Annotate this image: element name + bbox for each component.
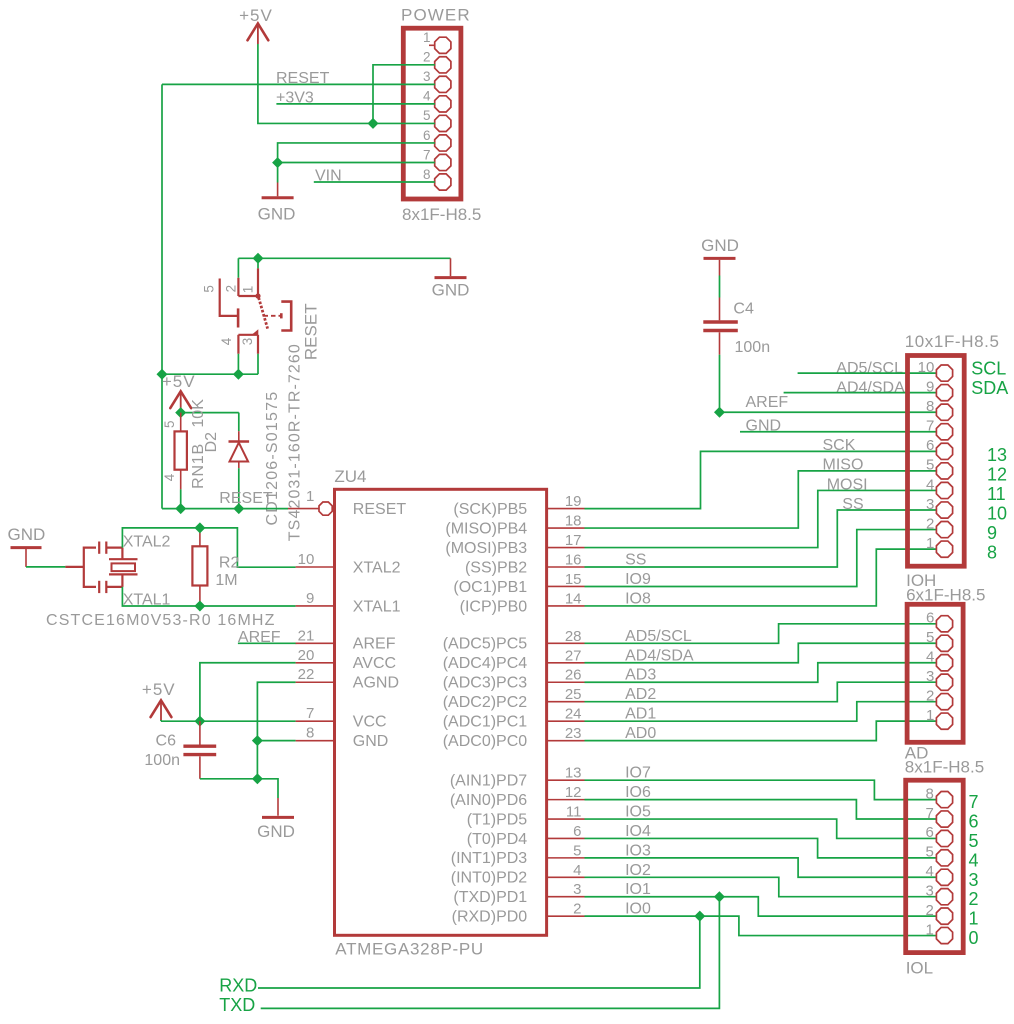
wire MISO ZU4 to IOH pin 5 [585,471,937,528]
wire GND to POWER pin7 [278,161,435,163]
svg-text:3: 3 [926,496,934,513]
net label 6 (IOL) [969,812,979,832]
ZU4 right pin 19 (SCK)PB5 [453,493,584,518]
net label AD5/SCL (IOH) [836,360,903,377]
C6 name [156,732,177,749]
junction C4/AREF [715,407,725,417]
net label 9 (IOH) [987,523,997,543]
svg-text:7: 7 [926,418,934,435]
svg-text:8: 8 [987,543,997,563]
junction switch pin4 [234,369,244,379]
ground symbol GND (C4) [701,236,739,276]
junction RN1B/RESET [176,504,186,514]
net label IO0 [625,901,651,918]
net label GND (IOH) [746,417,782,434]
net label +3V3 [276,89,314,106]
svg-text:R2: R2 [219,555,240,572]
net label IO9 [625,571,651,588]
svg-text:3: 3 [969,870,979,890]
POWER pin 1 stub [429,44,435,46]
POWER pin 8 pad [423,167,451,190]
svg-text:26: 26 [565,667,582,684]
junction XTAL1/R2 [195,601,205,611]
net label SS (IOH) [842,496,863,513]
svg-text:4: 4 [162,473,177,481]
svg-text:GND: GND [353,733,389,750]
POWER pin 2 pad [423,50,451,73]
svg-text:20: 20 [298,647,315,664]
connector IOH 10x1F-H8.5 [908,356,965,567]
svg-text:9: 9 [987,523,997,543]
junction +5V/RN1B [176,408,186,418]
svg-text:1: 1 [423,30,431,45]
wire IO6 ZU4 to IOL pin 7 [585,800,937,819]
svg-text:CSTCE16M0V53-R0 16MHZ: CSTCE16M0V53-R0 16MHZ [46,612,276,629]
svg-text:3: 3 [423,69,431,84]
svg-text:AD1: AD1 [625,706,656,723]
ground symbol GND (switch) [432,258,470,299]
svg-text:4: 4 [926,476,934,493]
net label VIN [315,168,342,185]
ground symbol GND (POWER) [258,163,296,224]
svg-text:RESET: RESET [219,490,273,507]
svg-text:23: 23 [565,725,582,742]
ZU4 right pin 16 (SS)PB2 [465,552,585,577]
IOL pin 8 pad [925,785,952,807]
IOH pin 7 pad [926,418,953,440]
power symbol +5V (VCC) [142,680,176,721]
svg-text:5: 5 [926,457,934,474]
svg-text:IO4: IO4 [625,823,651,840]
svg-text:(MOSI)PB3: (MOSI)PB3 [445,540,527,557]
wire AD5/SCL ZU4 pin28 to AD pin 6 [585,624,937,644]
wire D2 to RESET [238,468,240,508]
ZU4 right pin 23 (ADC0)PC0 [443,725,585,750]
svg-text:21: 21 [298,627,315,644]
ZU4 pin1 inverter bubble [319,502,332,515]
wire AD0 ZU4 pin23 to AD pin 1 [585,721,937,741]
wire VCC row [161,720,296,721]
diode D2 [229,413,250,469]
svg-text:(OC1)PB1: (OC1)PB1 [453,579,527,596]
wire IO5 ZU4 to IOL pin 6 [585,819,937,838]
AD pin 6 pad [926,610,953,632]
svg-text:8: 8 [423,167,431,182]
ground symbol GND (XTAL) [8,525,46,567]
POWER pin 7 pad [423,147,451,170]
POWER pin 3 pad [423,69,451,92]
svg-text:SS: SS [625,552,646,569]
svg-text:5: 5 [162,420,177,428]
svg-text:(ADC4)PC4: (ADC4)PC4 [443,655,528,672]
svg-text:IO5: IO5 [625,804,651,821]
svg-text:(T0)PD4: (T0)PD4 [467,831,528,848]
svg-text:3: 3 [925,883,933,900]
svg-text:2: 2 [573,901,581,918]
svg-text:6: 6 [925,824,933,841]
svg-text:IO9: IO9 [625,571,651,588]
svg-text:6: 6 [969,812,979,832]
svg-text:AD5/SCL: AD5/SCL [836,360,903,377]
svg-text:14: 14 [565,590,582,607]
wire AD4 ZU4 pin27 to AD pin 5 [585,643,937,663]
svg-text:2: 2 [224,285,239,293]
svg-text:13: 13 [987,445,1007,465]
net label IO1 [625,881,651,898]
svg-text:4: 4 [219,337,234,345]
svg-text:XTAL2: XTAL2 [353,559,401,576]
wire AD5/SCL stub to IOH pin10 [798,372,937,374]
IOH pin 6 pad [926,437,953,459]
net label IO8 [625,590,651,607]
net label AD4/SDA [625,647,694,664]
IC ZU4 ATMEGA328P-PU body [335,489,547,935]
svg-text:SCK: SCK [823,437,856,454]
net label MISO (IOH) [823,457,864,474]
svg-text:100n: 100n [144,752,180,769]
switch name RESET (rotated) [302,303,321,360]
switch pin numbers 5 2 1 4 3 [202,285,256,345]
svg-text:12: 12 [565,784,582,801]
svg-text:AD4/SDA: AD4/SDA [836,379,905,396]
net label RESET [276,70,330,87]
svg-text:IO3: IO3 [625,842,651,859]
svg-text:(AIN1)PD7: (AIN1)PD7 [450,773,527,790]
R2 name [219,555,240,572]
wire IO2 ZU4 to IOL pin 3 [585,877,937,896]
svg-text:8: 8 [925,785,933,802]
svg-text:(AIN0)PD6: (AIN0)PD6 [450,792,527,809]
net label AD3 [625,667,656,684]
svg-text:1: 1 [306,488,314,505]
resonator value CSTCE16M0V53-R0 16MHZ [46,612,276,629]
svg-text:TS42031-160R-TR-7260: TS42031-160R-TR-7260 [286,343,303,541]
svg-text:+5V: +5V [142,680,176,699]
svg-text:8: 8 [306,725,314,742]
ZU4 left pin 9 XTAL1 [296,590,401,615]
svg-text:C6: C6 [156,732,177,749]
wire GND to resonator [26,566,65,568]
IOH name [906,571,936,590]
svg-text:8x1F-H8.5: 8x1F-H8.5 [905,757,984,776]
svg-text:7: 7 [969,792,979,812]
net label AD0 [625,725,656,742]
svg-text:(RXD)PD0: (RXD)PD0 [452,908,528,925]
svg-text:RESET: RESET [353,501,407,518]
C4 value 100n [735,339,771,356]
R2 value 1M [215,572,237,589]
junction C6/GND [253,774,263,784]
svg-text:6x1F-H8.5: 6x1F-H8.5 [906,585,985,604]
svg-text:(ADC1)PC1: (ADC1)PC1 [443,713,528,730]
ZU4 right pin 4 (INT0)PD2 [451,862,585,887]
net label AD2 [625,686,656,703]
RN1B value 10K (rotated) [190,399,207,428]
ZU4 right pin 18 (MISO)PB4 [445,513,584,538]
svg-text:2: 2 [925,902,933,919]
svg-text:SDA: SDA [971,378,1008,398]
AD pin 1 pad [926,707,953,729]
ZU4 right pin 3 (TXD)PD1 [453,881,584,906]
POWER pin 6 pad [423,128,451,151]
svg-text:6: 6 [423,128,431,143]
resistor RN1B 10K [175,413,187,490]
ZU4 left pin 8 GND [296,725,389,750]
wire AGND riser [257,682,295,740]
svg-text:17: 17 [565,532,582,549]
wire RESET to POWER pin3 [162,83,435,85]
net label 12 (IOH) [987,464,1007,484]
C4 name [733,300,754,317]
IOL pin 6 pad [925,824,952,846]
wire C4 to AREF [720,355,937,413]
junction TXD/IO1 [715,892,725,902]
svg-text:IO6: IO6 [625,784,651,801]
ZU4 right pin 27 (ADC4)PC4 [443,647,585,672]
POWER pin 4 pad [423,89,451,112]
net label MOSI (IOH) [827,476,868,493]
junction RXD/IO0 [695,911,705,921]
connector IOL 8x1F-H8.5 [906,780,964,952]
svg-text:(ADC0)PC0: (ADC0)PC0 [443,733,528,750]
wire AD3 ZU4 pin26 to AD pin 4 [585,663,937,683]
svg-text:10: 10 [298,551,315,568]
svg-text:(INT1)PD3: (INT1)PD3 [451,850,528,867]
IOL name [906,959,933,978]
svg-text:100n: 100n [735,339,771,356]
ZU4 left pin 10 XTAL2 [296,551,401,576]
svg-text:2: 2 [969,889,979,909]
net label IO3 [625,842,651,859]
wire RESET long vertical [161,84,163,508]
IOH pin 4 pad [926,476,953,498]
svg-text:3: 3 [573,881,581,898]
svg-text:5: 5 [573,842,581,859]
ZU4 right pin 14 (ICP)PB0 [460,590,585,615]
svg-text:4: 4 [573,862,581,879]
net label IO6 [625,784,651,801]
wire IO3 ZU4 to IOL pin 4 [585,858,937,877]
svg-text:(INT0)PD2: (INT0)PD2 [451,870,528,887]
wire C6 to GND [200,741,278,798]
POWER pin 5 pad [423,108,451,131]
net label AREF (IOH) [746,394,789,411]
svg-text:28: 28 [565,628,582,645]
svg-text:IO0: IO0 [625,901,651,918]
svg-text:(SCK)PB5: (SCK)PB5 [453,501,527,518]
IOH pin 10 pad [918,359,953,381]
svg-text:5: 5 [969,831,979,851]
capacitor C6 [183,721,216,779]
svg-text:19: 19 [565,493,582,510]
svg-text:6: 6 [573,823,581,840]
IOL pin 4 pad [925,863,952,885]
svg-text:RXD: RXD [219,976,257,996]
POWER name label [401,6,471,25]
svg-text:10x1F-H8.5: 10x1F-H8.5 [905,332,1000,351]
svg-text:XTAL2: XTAL2 [123,533,171,550]
POWER pin 1 pad [423,30,451,53]
net label SCK (IOH) [823,437,856,454]
net label IO4 [625,823,651,840]
wire SCK ZU4 to IOH pin 6 [585,451,937,508]
svg-text:GND: GND [8,525,46,544]
ZU4 right pin 28 (ADC5)PC5 [443,628,585,653]
svg-text:D2: D2 [203,432,220,453]
connector AD 6x1F-H8.5 [907,604,963,742]
junction XTAL2/R2 [195,523,205,533]
IOH pin 2 pad [926,515,953,537]
AD pin 2 pad [926,687,953,709]
wire +5V node [181,411,239,413]
svg-text:1: 1 [926,707,934,724]
net label XTAL1 [123,591,171,608]
ZU4 right pin 25 (ADC2)PC2 [443,686,585,711]
capacitor C4 [703,298,738,355]
wire AD4/SDA stub to IOH pin9 [784,392,937,394]
junction RESET/switch [157,369,167,379]
svg-text:10: 10 [987,504,1007,524]
wire IO8 ZU4 to IOH pin 1 [585,549,937,606]
ZU4 right pin 5 (INT1)PD3 [451,842,585,867]
net label 2 (IOL) [969,889,979,909]
svg-text:15: 15 [565,571,582,588]
net label AREF (ZU4) [238,629,281,646]
junction GND pins 6/7 [273,158,283,168]
svg-text:VCC: VCC [353,713,387,730]
ZU4 name [334,467,366,486]
resistor R2 1M [192,528,207,606]
wire IO4 ZU4 to IOL pin 5 [585,838,937,857]
svg-text:IOL: IOL [906,959,933,978]
svg-text:1: 1 [925,921,933,938]
svg-text:7: 7 [306,705,314,722]
svg-text:GND: GND [258,205,296,224]
RN1B name (rotated) [190,443,207,489]
net label 4 (IOL) [969,850,979,870]
IOH pin 8 pad [926,398,953,420]
junction VCC/+5V/C6 [195,716,205,726]
net label XTAL2 [123,533,171,550]
ZU4 left pin 20 AVCC [296,647,396,672]
svg-text:IO1: IO1 [625,881,651,898]
svg-text:18: 18 [565,513,582,530]
svg-text:10: 10 [918,359,935,376]
wire +3V3 to POWER pin4 [276,103,435,105]
svg-text:(ADC3)PC3: (ADC3)PC3 [443,675,528,692]
svg-text:ATMEGA328P-PU: ATMEGA328P-PU [335,940,484,959]
svg-text:SCL: SCL [971,359,1006,379]
svg-text:0: 0 [969,928,979,948]
svg-text:GND: GND [701,236,739,255]
svg-text:(MISO)PB4: (MISO)PB4 [445,520,527,537]
RN1B pin numbers 5 4 [162,420,177,481]
wire GND to POWER pin6 [278,143,435,163]
ZU4 right pin 6 (T0)PD4 [467,823,585,848]
svg-text:SS: SS [842,496,863,513]
net label AD1 [625,706,656,723]
svg-text:ZU4: ZU4 [334,467,366,486]
diode D2 name (rotated) [203,432,220,453]
svg-text:1: 1 [241,286,256,294]
svg-text:AGND: AGND [353,675,399,692]
wire RESET into ZU4 pin1 [162,508,319,510]
IOL pin 7 pad [925,805,952,827]
switch value TS42031-160R-TR-7260 (rotated) [286,343,303,541]
svg-text:24: 24 [565,706,582,723]
wire POWER pin2 riser (IOREF to +5V) [373,65,435,124]
wire switch pins 3/4 to RESET [162,354,258,374]
svg-text:4: 4 [969,850,979,870]
wire XTAL2 [122,528,295,567]
wire AVCC to +5V [200,663,296,721]
svg-text:IO8: IO8 [625,590,651,607]
net label 0 (IOL) [969,928,979,948]
wire IO0 ZU4 to IOL pin 1 [585,916,937,935]
svg-text:10K: 10K [190,399,207,428]
wire GND to IOH pin7 [740,431,936,433]
D2 value CD1206-S01575 (rotated) [264,391,281,526]
svg-text:POWER: POWER [401,6,471,25]
svg-text:IO7: IO7 [625,765,651,782]
IOL pin 2 pad [925,902,952,924]
svg-text:8: 8 [926,398,934,415]
AD pin 4 pad [926,649,953,671]
wire AD2 ZU4 pin25 to AD pin 3 [585,682,937,702]
ZU4 left pin 21 AREF [296,627,396,652]
connector POWER 8x1F-H8.5 [403,28,461,199]
net label IO7 [625,765,651,782]
wire IO1 ZU4 to IOL pin 2 [585,897,937,916]
svg-text:7: 7 [925,805,933,822]
ZU4 right pin 26 (ADC3)PC3 [443,667,585,692]
net label SCL [971,359,1006,379]
svg-text:+5V: +5V [162,372,196,391]
wire GND row pin8 [257,740,295,742]
net label 10 (IOH) [987,504,1007,524]
net label 8 (IOH) [987,543,997,563]
svg-text:4: 4 [925,863,933,880]
svg-text:AD5/SCL: AD5/SCL [625,628,692,645]
svg-text:AD3: AD3 [625,667,656,684]
AD name [905,744,929,763]
svg-text:AREF: AREF [353,636,396,653]
svg-text:(T1)PD5: (T1)PD5 [467,811,528,828]
wire AREF stub to pin21 [238,642,296,644]
net label RXD [219,976,257,996]
net label 7 (IOL) [969,792,979,812]
svg-text:5: 5 [926,629,934,646]
svg-text:1: 1 [969,909,979,929]
svg-text:27: 27 [565,647,582,664]
IOL pin 5 pad [925,844,952,866]
svg-text:TXD: TXD [219,995,255,1015]
svg-text:RESET: RESET [302,303,321,360]
svg-text:IO2: IO2 [625,862,651,879]
ZU4 right pin 13 (AIN1)PD7 [450,765,585,790]
svg-text:9: 9 [926,378,934,395]
net label 1 (IOL) [969,909,979,929]
net label 11 (IOH) [987,484,1006,504]
svg-text:2: 2 [423,50,431,65]
IOH pin 1 pad [926,535,953,557]
IOH pin 5 pad [926,457,953,479]
AD title 6x1F-H8.5 [906,585,985,604]
wire switch top to GND [238,257,450,259]
svg-text:(TXD)PD1: (TXD)PD1 [453,889,527,906]
svg-text:22: 22 [298,666,315,683]
IOL pin 1 pad [925,921,952,943]
